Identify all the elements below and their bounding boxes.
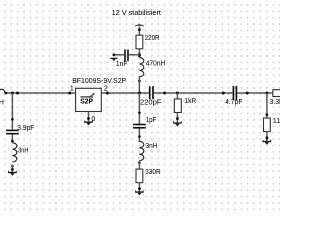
svg-text:S2P: S2P	[80, 99, 93, 106]
ground symbol 6	[263, 140, 272, 145]
resistor R5 vertical	[264, 118, 271, 132]
wire node D to R3	[176, 93, 178, 99]
ground pin dot C2	[113, 53, 116, 56]
node dot C3 right pin	[163, 92, 166, 95]
wire R1 to node B	[138, 49, 140, 58]
node junction D	[176, 92, 179, 95]
inductor L2 3nH	[12, 143, 16, 162]
wire main horizontal middle segment	[154, 92, 233, 94]
ground symbol 5	[173, 121, 182, 126]
ground pin dot	[11, 168, 14, 171]
pin circle L4 bottom	[138, 161, 141, 164]
node junction B	[138, 53, 141, 56]
svg-text:3nH: 3nH	[146, 143, 158, 150]
svg-text:1kR: 1kR	[185, 98, 197, 105]
inductor L4 3nH	[139, 141, 143, 160]
wire node B to C2	[129, 54, 140, 56]
pin circle C1 top	[11, 118, 14, 121]
pin circle L3 top	[138, 55, 140, 57]
pin circle L2 bottom	[11, 165, 14, 168]
capacitor C5 4.7pF	[233, 86, 236, 100]
capacitor C4 1pF	[133, 125, 146, 128]
wire main horizontal right segment	[237, 92, 273, 94]
ground pin dot U1	[87, 117, 90, 120]
svg-text:4.7pF: 4.7pF	[225, 99, 242, 106]
svg-text:1pF: 1pF	[146, 117, 157, 124]
node dot	[16, 92, 19, 95]
ground symbol 4	[135, 190, 144, 195]
resistor R3 1kR	[174, 99, 181, 113]
U1 arrow icon	[81, 93, 95, 97]
capacitor C2 1nF	[125, 50, 128, 62]
node junction E	[265, 92, 268, 95]
node dot S2P pin1	[68, 92, 71, 95]
pin circle L2 top	[11, 140, 14, 143]
pin circle C4 top	[138, 112, 141, 115]
resistor R1 220R	[136, 35, 143, 49]
svg-text:110R: 110R	[273, 118, 280, 125]
wire C4 to L4	[138, 129, 140, 143]
node junction C (4-way)	[138, 92, 141, 95]
svg-text:1nF: 1nF	[116, 61, 128, 68]
wire R2 to ground	[138, 183, 140, 192]
capacitor C3 220pF	[150, 86, 153, 99]
power symbol (inverted ground)	[135, 24, 143, 27]
wire branch A vertical	[11, 93, 13, 130]
ground pin dot R2	[138, 187, 141, 190]
svg-text:3.3kR: 3.3kR	[269, 99, 280, 106]
wire node E down	[266, 93, 268, 118]
svg-text:1: 1	[70, 86, 74, 93]
svg-text:3nH: 3nH	[18, 147, 28, 154]
svg-text:470nH: 470nH	[146, 60, 166, 67]
wire C2 to ground	[114, 54, 124, 56]
wire R3 to ground	[176, 113, 178, 123]
power pin dot	[138, 28, 141, 31]
ground symbol 1	[8, 171, 17, 176]
wire L2 to ground	[11, 165, 13, 172]
svg-text:3.9pF: 3.9pF	[17, 125, 34, 132]
inductor L3 470nH	[139, 58, 143, 77]
wire node C down	[138, 93, 140, 124]
ground pin dot R5	[266, 136, 269, 139]
node dot S2P pin2	[106, 92, 109, 95]
svg-text:220pF: 220pF	[140, 100, 161, 107]
resistor R4 horizontal at right edge	[273, 90, 290, 97]
pin circle L4 top	[138, 135, 141, 138]
ground symbol 3	[110, 58, 117, 62]
node dot C5 left pin	[222, 92, 225, 95]
ground pin dot R3	[176, 117, 179, 120]
wire L4 to R2	[138, 161, 140, 169]
inductor L1 partial at left edge	[0, 89, 5, 93]
svg-text:220R: 220R	[145, 35, 160, 42]
capacitor C1 3.9pF	[6, 130, 19, 133]
pin dot R5 top	[266, 113, 269, 116]
ground symbol 2	[84, 121, 93, 126]
pin circle L3 bottom	[138, 80, 141, 83]
svg-text:12 V stabilisiert: 12 V stabilisiert	[112, 8, 162, 17]
node junction A on main line	[11, 92, 14, 95]
wire R5 to ground	[266, 132, 268, 141]
svg-text:2: 2	[104, 86, 108, 93]
resistor R2 330R	[136, 169, 143, 183]
svg-text:330R: 330R	[145, 169, 161, 176]
svg-text:BF1009S-9V.S2P: BF1009S-9V.S2P	[72, 78, 126, 85]
node dot C5 right pin	[246, 92, 249, 95]
wire L3 to main line	[138, 76, 140, 93]
wire main horizontal left segment	[5, 92, 149, 94]
wire U1 pin0 stem	[88, 112, 90, 122]
op-block U1 S2P box	[76, 88, 102, 111]
wire C1 to L2	[11, 134, 13, 142]
svg-text:39nH: 39nH	[0, 100, 4, 107]
wire power to R1	[138, 27, 140, 36]
node dot L1 pin	[5, 92, 8, 95]
